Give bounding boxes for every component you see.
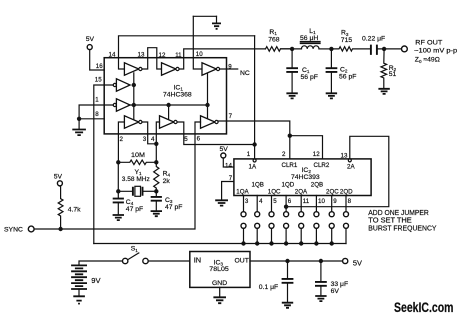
enable gate OE1 (pin 1) bbox=[113, 99, 130, 111]
svg-text:56 pF: 56 pF bbox=[301, 74, 318, 81]
wire pin9 NC stub bbox=[220, 68, 238, 70]
inverter IC1-C (top right) bbox=[202, 63, 220, 75]
svg-text:47 pF: 47 pF bbox=[165, 204, 182, 211]
5V output terminal bbox=[343, 258, 362, 267]
enable gate OE2 (pin 15) bbox=[113, 79, 130, 91]
svg-text:SeekIC.com: SeekIC.com bbox=[394, 300, 454, 315]
svg-text:CLR1: CLR1 bbox=[282, 162, 298, 169]
ground (C1) bbox=[286, 93, 297, 98]
svg-text:74HC393: 74HC393 bbox=[291, 174, 320, 181]
crystal Y1 3.58 MHz bbox=[116, 162, 158, 198]
node 1QD/2A junction bbox=[284, 205, 288, 209]
node A (pin5 / pin14 / 1A) bbox=[252, 142, 256, 146]
svg-text:2QA: 2QA bbox=[295, 188, 308, 195]
jumper column 2QB pin10 bbox=[314, 196, 319, 246]
svg-text:5: 5 bbox=[273, 198, 277, 205]
enable rail horizontal (from OE gates) bbox=[130, 104, 208, 106]
IC2 box 74HC393 bbox=[234, 159, 371, 196]
jumper column 2QA pin11 bbox=[299, 196, 304, 246]
wire IC1 pin2 to crystal network bbox=[118, 122, 124, 162]
svg-text:2QC: 2QC bbox=[326, 188, 339, 195]
ground (IC1 pins 1,8) bbox=[72, 119, 86, 135]
inverter IC1-A (top left) bbox=[124, 63, 142, 75]
node R1/L1/C1 bbox=[281, 47, 302, 51]
svg-text:6: 6 bbox=[197, 136, 201, 143]
capacitor C1 56pF bbox=[286, 49, 318, 93]
svg-text:1QA: 1QA bbox=[236, 188, 249, 195]
jumper column 1QC pin5 bbox=[269, 196, 274, 246]
jumper column 2QD pin8 bbox=[344, 196, 349, 244]
svg-text:715: 715 bbox=[341, 37, 353, 44]
IC2 bottom pin numbers 3 4 5 6 11 10 9 8 bbox=[245, 198, 352, 205]
svg-text:1: 1 bbox=[95, 97, 99, 104]
voltage regulator IC3 78L05 bbox=[190, 252, 250, 288]
IC1 top pin numbers 14 13 12 11 10 bbox=[109, 51, 204, 59]
svg-text:2: 2 bbox=[282, 151, 286, 158]
svg-text:14: 14 bbox=[225, 163, 232, 170]
svg-text:~100 mV p-p: ~100 mV p-p bbox=[414, 48, 457, 55]
IC2 pin labels 1A CLR1 CLR2 2A bbox=[249, 162, 356, 171]
resistor R1 768 bbox=[266, 29, 292, 51]
node pin1/pin8 ground junction bbox=[77, 117, 81, 121]
wire ground to IC1 pin 10 bbox=[193, 16, 202, 69]
jumper column 1QA pin3 bbox=[241, 196, 246, 246]
svg-text:1QB: 1QB bbox=[252, 182, 264, 189]
svg-text:3: 3 bbox=[143, 136, 147, 143]
wire IC2 pin7 GND bbox=[222, 175, 234, 200]
svg-text:16: 16 bbox=[96, 63, 103, 70]
svg-text:8: 8 bbox=[348, 198, 352, 205]
svg-text:OUT: OUT bbox=[235, 257, 249, 264]
svg-text:GND: GND bbox=[212, 280, 227, 287]
svg-text:RF OUT: RF OUT bbox=[415, 40, 442, 47]
svg-text:12: 12 bbox=[159, 52, 166, 59]
svg-text:8: 8 bbox=[95, 111, 99, 118]
svg-text:4: 4 bbox=[151, 136, 155, 143]
svg-text:78L05: 78L05 bbox=[209, 266, 229, 273]
svg-text:R1: R1 bbox=[269, 29, 277, 36]
ground (C2) bbox=[326, 93, 337, 98]
svg-text:10: 10 bbox=[196, 51, 203, 58]
node L1/C2/R3 bbox=[329, 47, 333, 51]
resistor R4 2k bbox=[154, 144, 171, 192]
node SYNC/pullup bbox=[58, 227, 62, 231]
jumper column 1QB pin4 bbox=[255, 196, 260, 246]
svg-text:2k: 2k bbox=[163, 178, 171, 185]
inverter IC1-E (bottom middle) bbox=[160, 116, 178, 128]
svg-text:11: 11 bbox=[175, 52, 182, 59]
svg-text:0.22 μF: 0.22 μF bbox=[362, 35, 385, 42]
svg-text:10M: 10M bbox=[131, 152, 145, 159]
ground (C3) bbox=[151, 211, 162, 216]
capacitor C2 56pF bbox=[326, 49, 357, 93]
wire IC1 pin3 (osc output) bbox=[142, 122, 156, 144]
svg-text:6V: 6V bbox=[331, 288, 340, 295]
ground (top, at IC1 pin 10 net) bbox=[193, 16, 221, 29]
svg-text:768: 768 bbox=[268, 37, 280, 44]
svg-text:10: 10 bbox=[318, 198, 325, 205]
capacitor 33uF 6V bbox=[315, 261, 348, 296]
wire IC1 pin11 to RF filter bbox=[179, 49, 265, 69]
resistor 10M feedback bbox=[116, 152, 158, 165]
note text ADD ONE JUMPER bbox=[368, 208, 436, 232]
svg-text:2QD: 2QD bbox=[340, 188, 353, 195]
capacitor C3 47pF bbox=[151, 191, 183, 211]
inverter IC1-D (bottom left, oscillator) bbox=[124, 116, 142, 128]
svg-text:9: 9 bbox=[333, 198, 337, 205]
node 33uF tap bbox=[319, 259, 323, 263]
svg-text:56 pF: 56 pF bbox=[339, 74, 356, 81]
IC1 right pin numbers 9 7 bbox=[228, 64, 232, 120]
battery 9V bbox=[71, 261, 122, 305]
SYNC terminal bbox=[4, 226, 34, 233]
svg-text:CLR2: CLR2 bbox=[314, 162, 330, 169]
svg-text:1: 1 bbox=[247, 151, 251, 158]
inverter IC1-B (top middle) bbox=[162, 63, 180, 75]
svg-text:33 μF: 33 μF bbox=[331, 281, 349, 288]
svg-text:51: 51 bbox=[389, 71, 397, 78]
svg-text:7: 7 bbox=[229, 113, 233, 120]
wire jumper bus to IC1 pin15 bbox=[94, 243, 346, 245]
svg-text:14: 14 bbox=[109, 51, 116, 58]
wire IC1 pin6 to SYNC bbox=[34, 122, 201, 229]
wire CLR1-CLR2 loop bbox=[290, 136, 323, 159]
svg-text:6: 6 bbox=[288, 198, 292, 205]
svg-text:1QD: 1QD bbox=[282, 182, 295, 189]
svg-text:15: 15 bbox=[95, 77, 102, 84]
svg-text:11: 11 bbox=[303, 198, 310, 205]
clock bubble 2A bbox=[348, 159, 351, 162]
IC1 label bbox=[163, 85, 192, 99]
wire pin13-pin12 loop above IC1 bbox=[148, 48, 162, 69]
svg-text:0.1 μF: 0.1 μF bbox=[259, 284, 278, 291]
svg-text:S1: S1 bbox=[131, 246, 139, 253]
wire IC1 pin4 input bbox=[156, 122, 159, 144]
svg-text:SYNC: SYNC bbox=[4, 227, 23, 234]
wire IC1 pin1 to ground bbox=[79, 105, 113, 119]
svg-text:74HC368: 74HC368 bbox=[163, 91, 192, 98]
IC1 left pin numbers 16 15 1 8 bbox=[95, 63, 103, 118]
5V terminal top left (IC1 pin16 VCC) bbox=[86, 36, 105, 70]
svg-text:4: 4 bbox=[259, 198, 263, 205]
svg-text:2QB: 2QB bbox=[311, 182, 323, 189]
resistor R2 51 bbox=[381, 49, 397, 88]
wire IC1 pin14 to node A (feedback from pin 5) bbox=[119, 36, 255, 69]
wire IC1 pin8 to ground bbox=[79, 118, 104, 120]
svg-text:5V: 5V bbox=[54, 174, 63, 181]
IC2 label bbox=[291, 167, 320, 181]
svg-text:13: 13 bbox=[341, 153, 348, 160]
resistor R3 715 bbox=[331, 30, 371, 51]
ground (IC2 pin7) bbox=[215, 200, 228, 205]
IC1 box 74HC368 bbox=[104, 58, 226, 134]
ground (R2) bbox=[378, 89, 389, 94]
svg-text:3: 3 bbox=[245, 198, 249, 205]
svg-text:9V: 9V bbox=[91, 276, 101, 285]
capacitor 0.1uF bbox=[259, 261, 294, 302]
ground (33uF) bbox=[315, 296, 326, 301]
wire IC1 pin7 to counter clears bbox=[218, 121, 290, 136]
svg-text:2A: 2A bbox=[347, 164, 355, 171]
svg-text:5V: 5V bbox=[220, 146, 229, 153]
wire 1QD to 2A (cascade) bbox=[286, 136, 389, 206]
IC2 top pin numbers 1 2 12 13 bbox=[247, 151, 348, 160]
svg-text:IN: IN bbox=[194, 256, 201, 265]
svg-text:2: 2 bbox=[120, 136, 124, 143]
svg-text:12: 12 bbox=[313, 151, 320, 158]
IC2 output labels lower row 1QA 1QC 2QA 2QC 2QD bbox=[236, 188, 353, 195]
resistor 4.7k pull-up bbox=[58, 186, 81, 229]
wire IC1 pin15 to jumper bus (gating) bbox=[94, 85, 113, 244]
inverter IC1-F (bottom right) bbox=[201, 116, 219, 128]
ground (regulator GND) bbox=[213, 287, 226, 303]
node CLR1/CLR2/pin7 junction bbox=[288, 134, 292, 138]
jumper column 1QD pin6 bbox=[284, 196, 289, 246]
jumper column 2QC pin9 bbox=[329, 196, 334, 246]
ground (0.1uF) bbox=[282, 303, 293, 308]
svg-text:13: 13 bbox=[138, 51, 145, 58]
svg-text:4.7k: 4.7k bbox=[68, 207, 81, 214]
ground (C4) bbox=[113, 215, 124, 220]
node 0.1uF tap bbox=[285, 259, 289, 263]
capacitor C4 47pF bbox=[113, 199, 143, 215]
svg-text:5V: 5V bbox=[353, 259, 362, 268]
svg-text:NC: NC bbox=[240, 70, 250, 77]
node enable rail dots bbox=[132, 83, 210, 107]
5V pull-up terminal (SYNC) bbox=[54, 174, 63, 186]
svg-text:Z0 ≈49Ω: Z0 ≈49Ω bbox=[415, 57, 440, 64]
svg-text:47 pF: 47 pF bbox=[126, 206, 143, 213]
svg-text:1A: 1A bbox=[249, 164, 257, 171]
RF OUT terminal bbox=[402, 40, 458, 64]
node cap/R2 bbox=[382, 47, 386, 51]
wire regulator OUT to 5V bbox=[250, 260, 343, 262]
switch S1 bbox=[123, 246, 190, 264]
enable rail verticals inside IC1 bbox=[134, 73, 208, 120]
IC1 bottom pin numbers 2 3 4 5 6 bbox=[120, 136, 201, 144]
svg-text:1QC: 1QC bbox=[268, 188, 281, 195]
capacitor 0.22uF coupling bbox=[362, 35, 402, 55]
5V terminal (IC2 pin14 VCC) bbox=[220, 146, 234, 170]
clock bubble 1A bbox=[253, 145, 256, 163]
node pins3/4 junction bbox=[154, 142, 158, 146]
wire inverter A output to pin 13 bbox=[142, 58, 148, 69]
svg-text:R4: R4 bbox=[163, 171, 171, 178]
svg-text:BURST FREQUENCY: BURST FREQUENCY bbox=[368, 223, 436, 232]
IC2 output labels upper row 1QB 1QD 2QB bbox=[252, 182, 324, 189]
wire node A up to pin14 line bbox=[254, 36, 256, 145]
svg-text:3.58 MHz: 3.58 MHz bbox=[122, 176, 151, 183]
svg-text:5V: 5V bbox=[86, 36, 95, 43]
wire IC1 pin5 to IC2 clock 1A bbox=[177, 122, 255, 145]
inductor L1 56uH bbox=[300, 28, 331, 49]
svg-text:5: 5 bbox=[184, 136, 188, 143]
